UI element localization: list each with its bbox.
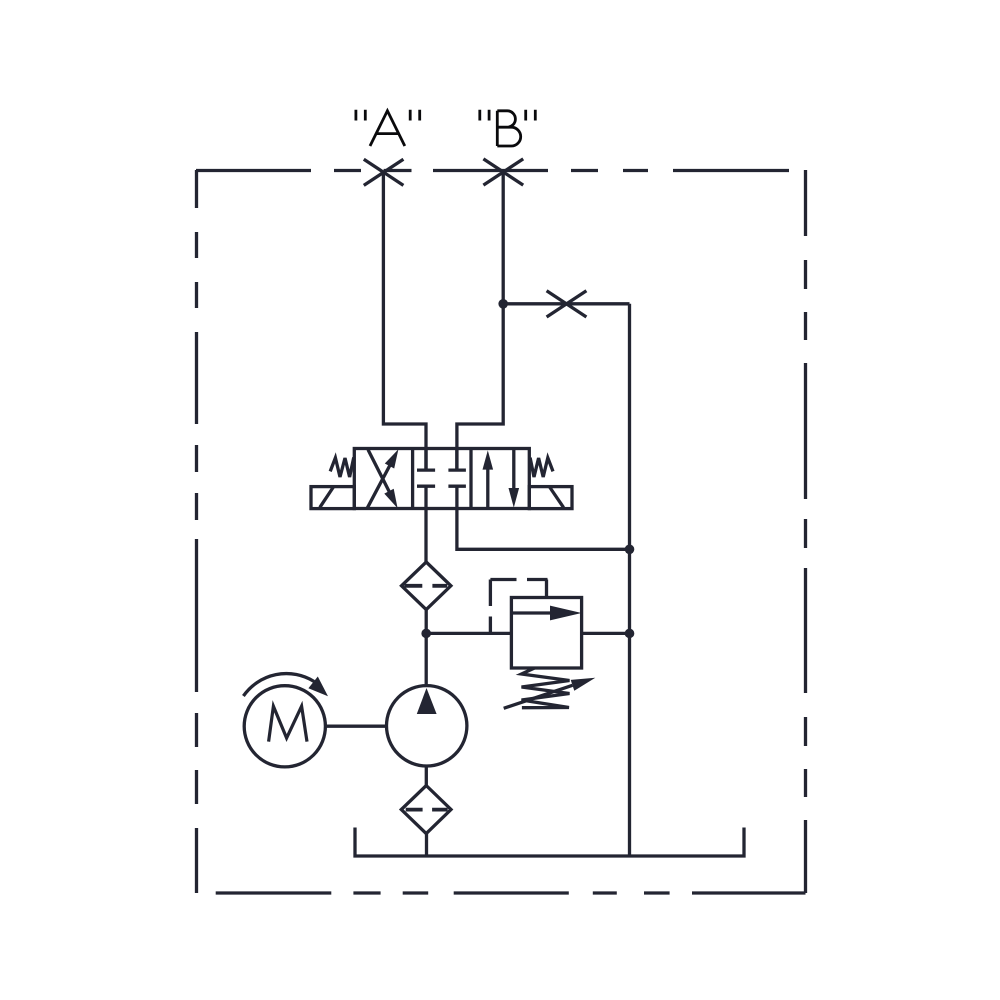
node pump outlet junction: [421, 629, 431, 639]
wire A line: [383, 172, 426, 470]
label port A: [356, 110, 420, 146]
wire right vertical from B branch: [628, 304, 631, 550]
filter F1 pressure filter: [402, 562, 451, 610]
tank reservoir: [355, 828, 744, 857]
valve V1 right solenoid: [529, 487, 572, 509]
filter F2 suction strainer: [401, 786, 451, 834]
relief valve RV1 pilot dashed line: [490, 580, 547, 634]
valve V1 left solenoid: [311, 487, 354, 509]
wire pump outlet to relief valve: [426, 632, 511, 635]
valve V1 right spring: [529, 458, 553, 477]
valve V1 right position parallel arrows: [483, 449, 520, 509]
pump P1 circle: [387, 686, 467, 766]
valve V1 centre position blocked ports: [417, 449, 466, 509]
wire T line below valve: [457, 509, 630, 550]
valve V1 body: [354, 449, 529, 509]
valve V1 left spring: [330, 458, 354, 477]
check plug X on B branch: [547, 291, 587, 317]
wire B branch horizontal: [503, 302, 629, 305]
motor M1 rotation arrow: [243, 674, 328, 697]
shaft motor to pump: [325, 725, 386, 728]
wire pump suction: [425, 766, 428, 786]
wire relief valve outlet: [582, 632, 630, 635]
enclosure dashed border right: [804, 170, 807, 893]
enclosure dashed border bottom: [216, 891, 806, 894]
enclosure dashed border top: [196, 169, 789, 172]
label port B: [480, 110, 536, 146]
wire filter to pump junction: [425, 610, 428, 687]
node relief outlet junction: [625, 629, 635, 639]
enclosure dashed border left: [195, 170, 198, 893]
node T line junction: [625, 545, 635, 555]
motor M1 circle: [244, 686, 325, 767]
port B plug symbol: [483, 159, 523, 185]
relief valve RV1 spring: [522, 668, 570, 708]
wire strainer to tank: [425, 834, 428, 856]
relief valve RV1 body: [511, 598, 581, 669]
node B branch junction: [498, 299, 508, 309]
wire P line below valve: [424, 509, 427, 563]
valve V1 left position crossed arrows: [367, 449, 398, 508]
port A plug symbol: [364, 159, 404, 185]
wire B line: [457, 172, 503, 470]
motor M1 letter M: [269, 706, 307, 741]
relief valve RV1 adjustment arrow: [504, 678, 596, 709]
wire right vertical to tank: [628, 549, 631, 856]
